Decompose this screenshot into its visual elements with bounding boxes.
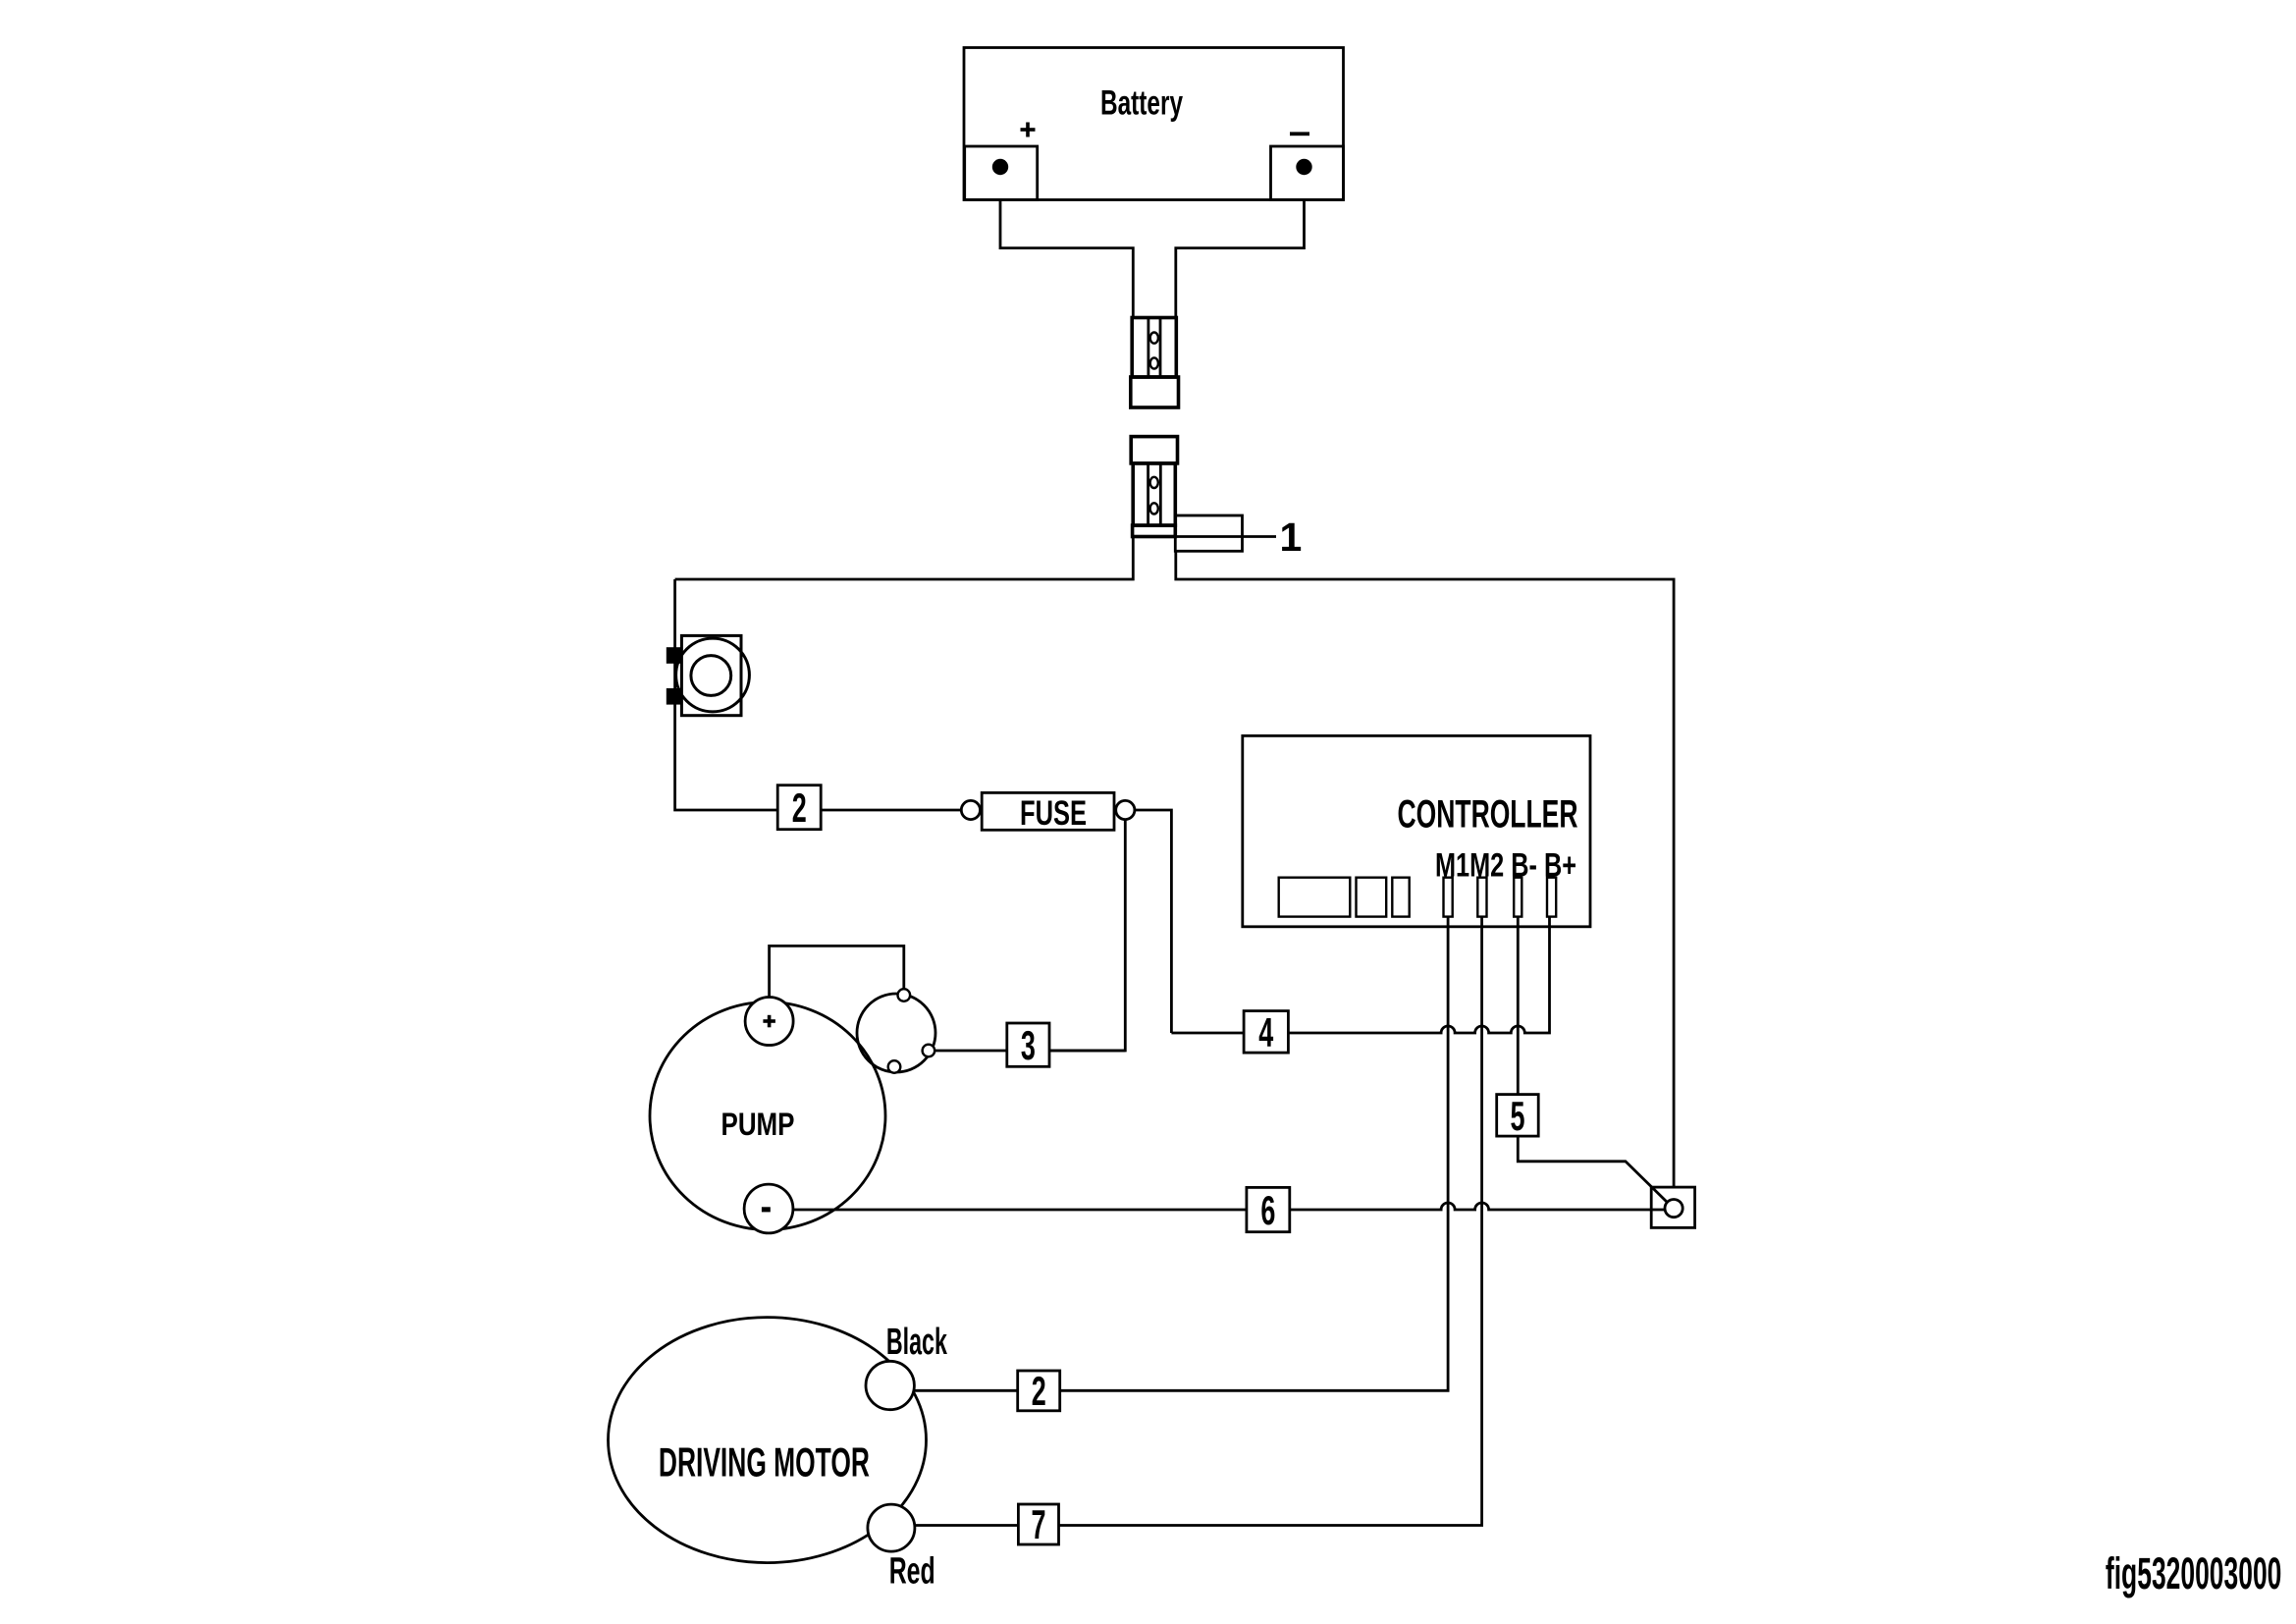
fuse right circle bbox=[1116, 800, 1135, 819]
wire fuse to B+ via label 4 bbox=[1135, 810, 1172, 1033]
svg-text:Red: Red bbox=[889, 1551, 935, 1593]
battery plus mark bbox=[1021, 123, 1036, 137]
wire connector to right bus bbox=[1176, 551, 1674, 1187]
fuse F1 left circle bbox=[961, 800, 980, 819]
key switch outer circle bbox=[676, 638, 750, 712]
controller pin M1 bbox=[1444, 878, 1453, 917]
svg-text:fig5320003000: fig5320003000 bbox=[2106, 1548, 2282, 1598]
battery negative terminal box bbox=[1271, 146, 1344, 200]
controller connector strip rect 3 bbox=[1392, 878, 1409, 917]
wire label 5 box bbox=[1497, 1095, 1539, 1137]
pump plus terminal circle bbox=[745, 998, 793, 1046]
key switch S1 bbox=[681, 635, 741, 715]
wire label 2 box bbox=[777, 785, 821, 830]
controller connector strip rect 1 bbox=[1279, 878, 1351, 917]
svg-text:Battery: Battery bbox=[1100, 84, 1183, 123]
controller pin B+ bbox=[1547, 878, 1556, 917]
connector upper inner lines bbox=[1148, 318, 1160, 378]
terminal stud square bbox=[1651, 1187, 1694, 1227]
svg-text:DRIVING MOTOR: DRIVING MOTOR bbox=[659, 1439, 870, 1486]
svg-text:7: 7 bbox=[1032, 1501, 1046, 1547]
svg-text:2: 2 bbox=[1032, 1368, 1046, 1414]
fuse body bbox=[982, 792, 1114, 830]
svg-text:CONTROLLER: CONTROLLER bbox=[1398, 793, 1578, 837]
wire label 2 lower box bbox=[1018, 1371, 1060, 1411]
callout 1 box bbox=[1175, 515, 1242, 551]
svg-text:4: 4 bbox=[1258, 1009, 1273, 1056]
solenoid right terminal bbox=[923, 1045, 935, 1057]
battery positive terminal dot bbox=[992, 159, 1008, 175]
wire 4 with jumps bbox=[1171, 917, 1549, 1033]
wire label 3 box bbox=[1007, 1023, 1049, 1066]
key switch upper tab bbox=[667, 647, 682, 664]
wire 2 to fuse bbox=[821, 809, 961, 812]
battery minus mark bbox=[1290, 132, 1309, 135]
svg-text:6: 6 bbox=[1260, 1187, 1275, 1233]
wire label 6 box bbox=[1247, 1187, 1290, 1231]
wire label 7 box bbox=[1018, 1504, 1058, 1544]
controller connector strip rect 2 bbox=[1357, 878, 1387, 917]
wire label 4 box bbox=[1244, 1011, 1288, 1054]
pump plus mark bbox=[763, 1015, 775, 1028]
callout 1 leader line bbox=[1175, 535, 1276, 538]
svg-text:Black: Black bbox=[886, 1322, 948, 1363]
battery BT1 bbox=[964, 48, 1344, 200]
controller pin B- bbox=[1514, 878, 1522, 917]
connector upper half body bbox=[1132, 318, 1176, 378]
svg-text:PUMP: PUMP bbox=[721, 1107, 795, 1142]
connector lower bottom strip bbox=[1133, 525, 1176, 536]
wire 3 row bbox=[934, 1050, 1125, 1053]
pump minus mark bbox=[762, 1207, 771, 1212]
svg-text:FUSE: FUSE bbox=[1020, 794, 1087, 833]
controller pin M2 bbox=[1477, 878, 1486, 917]
connector lower pin holes bbox=[1150, 477, 1158, 488]
key switch lower tab bbox=[667, 688, 682, 705]
wire M1 to motor black bbox=[914, 917, 1448, 1391]
driving motor M1 body bbox=[609, 1318, 927, 1563]
wire pump plus to solenoid bbox=[770, 946, 904, 997]
wire 6 pump minus to terminal stud bbox=[793, 1203, 1665, 1210]
connector upper pin holes bbox=[1150, 333, 1158, 344]
connector lower inner lines bbox=[1148, 463, 1161, 525]
terminal stud circle bbox=[1665, 1200, 1682, 1218]
battery positive terminal box bbox=[965, 146, 1038, 200]
connector upper bottom cap bbox=[1131, 377, 1179, 407]
svg-text:3: 3 bbox=[1021, 1022, 1036, 1068]
pump M2 body bbox=[650, 1002, 885, 1230]
controller U1 box bbox=[1243, 735, 1590, 926]
wire M2 to motor red bbox=[915, 917, 1482, 1526]
wire left bus down to fuse row bbox=[675, 579, 778, 810]
motor red terminal circle bbox=[868, 1504, 915, 1551]
pump minus terminal circle bbox=[744, 1184, 793, 1233]
connector lower half body bbox=[1133, 463, 1175, 525]
solenoid top terminal bbox=[898, 989, 911, 1001]
wire connector to left bus bbox=[675, 537, 1134, 580]
svg-text:2: 2 bbox=[792, 785, 807, 831]
wire fuse down to label 3 row bbox=[1049, 820, 1125, 1051]
solenoid lower terminal bbox=[888, 1060, 901, 1073]
svg-text:5: 5 bbox=[1511, 1093, 1525, 1139]
motor black terminal circle bbox=[866, 1361, 914, 1409]
key switch inner circle bbox=[691, 656, 731, 696]
wire battery negative to connector bbox=[1176, 200, 1305, 318]
battery negative terminal dot bbox=[1296, 159, 1311, 175]
connector lower half top cap bbox=[1131, 437, 1177, 463]
wire B- to label 5 bbox=[1518, 917, 1674, 1209]
svg-text:1: 1 bbox=[1280, 514, 1303, 560]
solenoid circle bbox=[857, 994, 935, 1072]
wire battery positive to connector bbox=[1000, 200, 1133, 318]
